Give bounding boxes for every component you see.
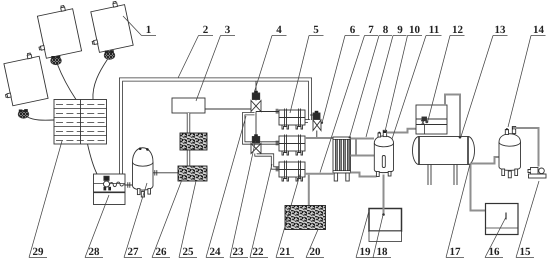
pump unit 22 (middle) — [276, 135, 305, 156]
leader 24 — [206, 116, 246, 258]
svg-text:6: 6 — [350, 24, 356, 36]
leader 29 — [29, 141, 62, 258]
svg-text:16: 16 — [489, 246, 501, 258]
pipe: collector 1a to header box — [58, 65, 77, 100]
pump unit 21 (bottom) — [276, 161, 305, 182]
leader 23 — [230, 141, 256, 258]
motorized valve 6 (on unit 5 outlet) — [310, 111, 321, 138]
svg-text:25: 25 — [183, 246, 195, 258]
pipe: tank 9 drain into water box 18 — [383, 175, 385, 215]
pipe: collector 1b to header box — [93, 59, 108, 99]
pipe: exchanger bottom to tank 9 bottom — [351, 173, 377, 177]
leader 11 — [392, 36, 442, 140]
pipe: pump unit 22 outlet to heat exchanger — [305, 137, 334, 139]
leader 2 — [178, 36, 213, 79]
pipe: tank 13 drain to softener box 16 — [471, 164, 486, 211]
flange coupling into tank 27 — [125, 182, 133, 187]
pipe: box 12 over to tank 13 top — [445, 95, 460, 137]
leader 17 — [446, 164, 470, 258]
riser pipe to valve 4 — [255, 81, 257, 93]
heater box 24/25 upper (speckled) — [180, 133, 207, 150]
leader 1 — [123, 16, 156, 36]
dosing box 12 — [416, 105, 447, 134]
svg-text:12: 12 — [452, 24, 464, 36]
leader 27 — [124, 183, 147, 258]
header manifold box 29 — [54, 100, 107, 145]
pipe: collector 1c to header box — [28, 117, 55, 120]
leader 6 — [322, 36, 360, 124]
svg-text:18: 18 — [377, 246, 389, 258]
svg-text:20: 20 — [310, 246, 322, 258]
storage tank 13 (horizontal) — [413, 137, 475, 186]
leader 28 — [85, 195, 109, 258]
leader 13 — [461, 36, 508, 137]
motorized valve 4 — [251, 91, 261, 112]
pump on collector 1b — [104, 50, 114, 59]
pipe: exchanger mid to tank 9 — [351, 139, 375, 156]
leader 20 — [306, 230, 324, 258]
svg-text:13: 13 — [495, 24, 507, 36]
pipe: tank 27 to filter box — [153, 172, 178, 174]
svg-text:27: 27 — [128, 246, 140, 258]
leader 8 — [350, 36, 393, 138]
svg-text:7: 7 — [368, 24, 374, 36]
leader 18 — [373, 215, 391, 258]
svg-text:8: 8 — [383, 24, 389, 36]
solar collector 1b (top right) — [85, 0, 133, 53]
leader 5 — [290, 36, 324, 114]
svg-text:24: 24 — [210, 246, 222, 258]
svg-text:21: 21 — [280, 246, 291, 258]
solar collector 1a (middle top) — [32, 4, 82, 59]
junction dot on tank 13 top — [459, 136, 462, 139]
pipe: exchanger top to tank 9 — [351, 138, 375, 140]
pipe: tank 13 to tank 14 — [470, 157, 499, 164]
leader lines top labels — [123, 16, 546, 173]
controller box 3 — [172, 98, 205, 113]
leader 10 — [385, 36, 422, 132]
pipe: header box to pump station — [88, 144, 98, 174]
flexible connector — [110, 182, 126, 187]
leader 14 — [508, 36, 546, 128]
water tank box 19 lower — [369, 231, 402, 242]
pipe: tee down to box 20 — [308, 175, 310, 206]
expansion tank 27 — [133, 147, 154, 197]
leader 22 — [250, 164, 272, 258]
filter box 25/26 lower (speckled) — [178, 166, 207, 181]
leader 9 — [366, 36, 407, 138]
leader 25 — [179, 181, 197, 258]
small valve inside box 12 — [422, 117, 427, 121]
pipe: tank 14 top to pump 15 — [514, 128, 539, 167]
circulation pump P1 — [104, 176, 109, 180]
svg-text:28: 28 — [89, 246, 101, 258]
pump on collector 1c — [18, 109, 28, 118]
svg-text:5: 5 — [313, 24, 319, 36]
leader 21 — [276, 175, 300, 258]
leader 4 — [254, 36, 287, 94]
branch pipe to pump unit 2 (double line) — [244, 114, 279, 143]
pressure tank 14 — [499, 127, 521, 178]
pump unit 5 (top) — [276, 109, 305, 130]
svg-text:1: 1 — [146, 24, 152, 36]
svg-text:9: 9 — [397, 24, 403, 36]
svg-text:14: 14 — [533, 24, 545, 36]
buffer tank 9/11 — [374, 130, 393, 176]
main loop supply pipe (double line) — [121, 80, 310, 175]
svg-text:15: 15 — [520, 246, 532, 258]
pump station box 28 — [94, 174, 126, 205]
svg-text:17: 17 — [450, 246, 462, 258]
softener box 16 — [486, 204, 519, 235]
svg-text:29: 29 — [33, 246, 45, 258]
leader 26 — [152, 177, 183, 258]
plate heat exchanger 7/8 — [333, 137, 351, 181]
pipe: valve 4 branch to pump unit 5 — [256, 111, 279, 113]
leader lines bottom labels — [29, 116, 539, 258]
svg-text:10: 10 — [409, 24, 421, 36]
pipe: pump unit 21 outlet to exchanger bottom — [305, 173, 334, 175]
leader 7 — [320, 36, 378, 173]
leader 3 — [196, 36, 235, 102]
svg-text:26: 26 — [156, 246, 168, 258]
water tank box 18 — [369, 209, 402, 232]
pipe: valve 24 to pump unit 22 — [256, 154, 279, 169]
pipe: tank 9 top to dosing box 12 — [387, 129, 417, 133]
svg-text:4: 4 — [276, 24, 282, 36]
speckled box 20 — [285, 206, 326, 230]
svg-text:23: 23 — [233, 246, 245, 258]
leader 15 — [516, 181, 539, 258]
leader 12 — [428, 36, 465, 121]
leader 16 — [485, 217, 506, 258]
svg-text:19: 19 — [360, 246, 372, 258]
svg-text:3: 3 — [225, 24, 231, 36]
control line to valve 4 — [205, 108, 251, 110]
svg-text:11: 11 — [429, 24, 439, 36]
pump 15 — [528, 168, 546, 179]
svg-text:2: 2 — [203, 24, 209, 36]
pipe: controller down to heater box (double line) — [187, 113, 190, 166]
pump on collector 1a — [51, 56, 61, 65]
solar collector 1c (left) — [0, 51, 48, 106]
svg-text:22: 22 — [253, 246, 265, 258]
pipe: valve 4 to valve 24 — [255, 112, 257, 137]
leader 19 — [356, 211, 374, 258]
motorized valve 24 — [251, 134, 261, 153]
